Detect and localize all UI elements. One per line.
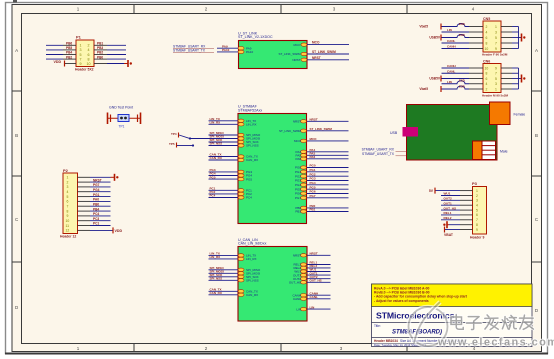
svg-text:2: 2 <box>476 194 478 198</box>
svg-text:5: 5 <box>476 208 478 212</box>
svg-text:PB4: PB4 <box>66 51 72 55</box>
svg-text:1: 1 <box>495 25 497 29</box>
P3 wires <box>436 191 461 230</box>
P3 net labels <box>444 192 457 220</box>
svg-text:ESD: ESD <box>459 33 465 37</box>
test point TP1 body <box>118 115 129 122</box>
svg-text:PB1: PB1 <box>295 210 301 214</box>
svg-text:www.elecfans.com: www.elecfans.com <box>437 337 554 349</box>
connector P3 body <box>473 187 487 235</box>
svg-text:PG7: PG7 <box>295 196 301 200</box>
svg-text:PB4: PB4 <box>93 207 99 211</box>
svg-text:STM8AF_USART_TX: STM8AF_USART_TX <box>362 152 395 156</box>
svg-text:7: 7 <box>476 218 478 222</box>
ground at P1 pin10 <box>124 63 128 65</box>
svg-text:PB1: PB1 <box>310 208 316 212</box>
test point left terminal <box>107 113 109 125</box>
svg-text:SPI_NSS: SPI_NSS <box>210 142 223 146</box>
svg-text:STM8AF_USART_TX: STM8AF_USART_TX <box>173 49 206 53</box>
svg-text:ESD: ESD <box>459 22 465 26</box>
svg-text:1: 1 <box>495 87 497 91</box>
P1 left pin stubs <box>63 45 76 63</box>
svg-text:Title:: Title: <box>374 324 381 328</box>
svg-text:OUT_HS: OUT_HS <box>310 279 322 283</box>
svg-text:4: 4 <box>88 48 90 52</box>
connector CN6 body <box>483 64 501 93</box>
U_CAN_LIN left pins <box>209 252 257 258</box>
P1 pin numbers <box>80 44 91 66</box>
U_ST_LINK body <box>239 41 308 69</box>
svg-text:PG7: PG7 <box>310 194 316 198</box>
svg-text:Vbat5: Vbat5 <box>419 87 428 91</box>
CN6 right pin stubs <box>501 68 512 89</box>
svg-text:SPI_NSS: SPI_NSS <box>210 277 223 281</box>
svg-text:PB0: PB0 <box>97 55 103 59</box>
svg-text:2: 2 <box>67 180 69 184</box>
svg-text:CANL: CANL <box>447 39 455 43</box>
svg-text:PB1: PB1 <box>97 42 103 46</box>
svg-text:12: 12 <box>66 229 70 233</box>
svg-text:5: 5 <box>67 195 69 199</box>
svg-text:7: 7 <box>495 72 497 76</box>
board pictogram male connector <box>473 141 483 160</box>
P2 pin stubs <box>78 177 91 230</box>
svg-text:5V: 5V <box>429 189 434 193</box>
svg-text:ESD: ESD <box>459 78 465 82</box>
svg-text:NRST: NRST <box>93 178 102 182</box>
svg-text:PB6: PB6 <box>66 42 72 46</box>
svg-text:TP4: TP4 <box>171 132 177 136</box>
CN5 right wires to ground bus <box>512 27 521 49</box>
test point TP1 wire <box>107 117 141 119</box>
svg-text:VBAT: VBAT <box>444 233 454 237</box>
svg-text:9: 9 <box>67 214 69 218</box>
svg-text:NRST: NRST <box>292 58 300 62</box>
svg-text:3: 3 <box>476 199 478 203</box>
U_CAN_LIN right pins <box>293 252 331 258</box>
U_CAN_LIN body <box>238 247 307 322</box>
svg-text:10: 10 <box>485 66 489 70</box>
P2 pin numbers <box>66 176 70 233</box>
svg-text:WU1: WU1 <box>444 192 451 196</box>
title block divider 2 <box>372 337 533 339</box>
svg-text:USB: USB <box>390 131 398 135</box>
svg-text:OUT2: OUT2 <box>444 197 453 201</box>
P3 pin stubs <box>460 191 473 230</box>
svg-text:TP5: TP5 <box>169 142 175 146</box>
board pictogram body <box>407 105 498 161</box>
ground at P3 pin8 <box>447 224 449 226</box>
U_STM8AF left pins <box>209 117 257 123</box>
svg-text:MCO: MCO <box>312 41 320 45</box>
svg-text:MCO: MCO <box>310 137 318 141</box>
svg-text:A: A <box>535 48 538 53</box>
svg-text:9: 9 <box>476 228 478 232</box>
wire MCO <box>307 44 349 46</box>
test point right terminal <box>140 113 142 125</box>
U_STM8AF body <box>238 114 307 224</box>
zone tick top 3/4 <box>406 5 408 14</box>
svg-text:LIN_RX: LIN_RX <box>246 257 257 261</box>
ground at P2 pin1 <box>111 176 115 178</box>
svg-text:LIN: LIN <box>310 305 315 309</box>
U_STM8AF right pins <box>293 118 349 124</box>
svg-text:STM8AF_USART_RX: STM8AF_USART_RX <box>362 148 395 152</box>
svg-text:Header 9: Header 9 <box>470 236 484 240</box>
svg-text:STM8AF52Axx: STM8AF52Axx <box>238 108 262 112</box>
title block outer <box>372 284 533 347</box>
svg-text:PA10: PA10 <box>246 50 253 54</box>
svg-text:8: 8 <box>67 209 69 213</box>
svg-text:4: 4 <box>67 190 69 194</box>
svg-text:4: 4 <box>486 82 488 86</box>
svg-text:PG4: PG4 <box>310 181 316 185</box>
svg-text:P3: P3 <box>472 181 478 186</box>
svg-text:5: 5 <box>495 77 497 81</box>
svg-text:ST_LINK_V2-1XDOC: ST_LINK_V2-1XDOC <box>238 35 273 39</box>
zone tick right <box>532 90 542 92</box>
svg-text:10: 10 <box>87 62 91 66</box>
P1 left wires <box>46 45 63 59</box>
svg-text:GND Test Point: GND Test Point <box>109 106 133 110</box>
svg-text:Header 5X2: Header 5X2 <box>75 68 94 72</box>
board pictogram USB plug <box>403 127 419 137</box>
title block divider 1 <box>372 322 533 324</box>
svg-text:CAN_LIN_9d/Dxx: CAN_LIN_9d/Dxx <box>238 242 267 246</box>
P2 wires <box>90 177 113 230</box>
CN6 right wires to ground bus <box>512 68 521 89</box>
svg-text:USB5V: USB5V <box>429 77 441 81</box>
title block notes box <box>372 284 533 307</box>
connector P1 body <box>76 40 94 67</box>
zone letters left <box>15 48 19 310</box>
power VDD at P2 pin12 <box>112 227 114 233</box>
svg-text:8: 8 <box>486 72 488 76</box>
CN5 left wires <box>442 24 470 49</box>
svg-text:- Adjust for values of compone: - Adjust for values of components <box>374 299 429 303</box>
svg-text:ST_LINK_SWIM: ST_LINK_SWIM <box>278 52 301 56</box>
svg-text:USB5V: USB5V <box>429 36 441 40</box>
svg-text:LIN_RX: LIN_RX <box>210 255 221 259</box>
corner mark top-left <box>13 0 17 3</box>
ground CN5 <box>521 34 523 42</box>
svg-text:B: B <box>535 133 538 138</box>
svg-text:CN5: CN5 <box>483 17 490 21</box>
svg-text:TP1: TP1 <box>119 125 125 129</box>
ground CN6 <box>521 75 523 83</box>
svg-text:1: 1 <box>67 176 69 180</box>
svg-text:6: 6 <box>486 77 488 81</box>
svg-text:CAN_RX: CAN_RX <box>246 293 258 297</box>
svg-text:3: 3 <box>495 30 497 34</box>
svg-text:8: 8 <box>486 41 488 45</box>
svg-text:PC4: PC4 <box>210 194 216 198</box>
zone numbers bottom <box>77 346 476 351</box>
svg-text:LIN_RX: LIN_RX <box>210 121 221 125</box>
svg-text:OUT_HS: OUT_HS <box>289 281 301 285</box>
svg-text:MCO: MCO <box>294 139 302 143</box>
svg-text:PC1: PC1 <box>93 222 99 226</box>
svg-text:PA6: PA6 <box>310 155 316 159</box>
svg-text:Header 12: Header 12 <box>60 235 76 239</box>
svg-text:PA6: PA6 <box>296 157 302 161</box>
svg-text:PB5: PB5 <box>66 46 72 50</box>
svg-text:5: 5 <box>80 53 82 57</box>
svg-text:LIN: LIN <box>296 307 301 311</box>
svg-text:REL2: REL2 <box>444 216 452 220</box>
svg-text:9: 9 <box>495 47 497 51</box>
svg-text:NRST: NRST <box>293 254 301 258</box>
svg-text:VDD: VDD <box>115 229 123 233</box>
svg-text:6: 6 <box>67 200 69 204</box>
svg-text:PG5: PG5 <box>246 177 252 181</box>
zone tick left <box>12 90 22 92</box>
svg-text:Header F 90 5x2M: Header F 90 5x2M <box>482 53 508 57</box>
watermark url <box>437 337 554 349</box>
board pictogram female connector <box>490 102 511 125</box>
svg-text:2: 2 <box>486 87 488 91</box>
svg-text:10: 10 <box>485 47 489 51</box>
svg-text:LIN_RX: LIN_RX <box>246 123 257 127</box>
svg-text:9: 9 <box>80 62 82 66</box>
svg-text:P2: P2 <box>63 168 69 173</box>
svg-text:PG4: PG4 <box>93 188 100 192</box>
svg-text:REL1: REL1 <box>444 211 452 215</box>
svg-text:6: 6 <box>476 213 478 217</box>
svg-text:3: 3 <box>67 185 69 189</box>
P1 right pin stubs <box>94 45 107 63</box>
svg-text:NRST: NRST <box>310 252 318 256</box>
svg-text:VDD: VDD <box>54 60 62 64</box>
svg-text:PG1: PG1 <box>93 193 100 197</box>
svg-text:CAN_RX: CAN_RX <box>246 158 258 162</box>
svg-text:6: 6 <box>88 53 90 57</box>
CN6 left wires <box>442 68 470 89</box>
svg-text:PC3: PC3 <box>93 217 99 221</box>
svg-text:SPI_NSS: SPI_NSS <box>246 144 259 148</box>
svg-text:NRST: NRST <box>310 118 318 122</box>
P3 pin numbers <box>476 189 478 232</box>
svg-text:CANL: CANL <box>293 297 301 301</box>
svg-text:Female: Female <box>514 113 526 117</box>
P1 left net labels <box>66 42 72 60</box>
svg-text:4: 4 <box>486 30 488 34</box>
svg-text:NRST: NRST <box>312 56 321 60</box>
bottom heavy border <box>5 353 548 355</box>
svg-text:PG5: PG5 <box>210 175 216 179</box>
P2 net labels <box>93 178 102 225</box>
svg-text:ESD: ESD <box>459 84 465 88</box>
svg-text:6: 6 <box>486 36 488 40</box>
svg-text:7: 7 <box>80 57 82 61</box>
svg-text:Header M 90 5x2M: Header M 90 5x2M <box>482 94 509 98</box>
zone numbers top <box>77 7 475 12</box>
svg-text:B: B <box>15 133 18 138</box>
svg-text:CANH: CANH <box>447 45 456 49</box>
CN6 left pin stubs <box>469 68 483 89</box>
svg-text:CAN_RX: CAN_RX <box>210 291 222 295</box>
wires into ST_LINK left <box>217 47 238 49</box>
power VBAT at P3 pin9 <box>444 227 446 233</box>
U_ST_LINK left pins <box>238 47 244 50</box>
svg-text:ST_LINK_SWIM: ST_LINK_SWIM <box>310 127 333 131</box>
svg-text:CANH: CANH <box>447 64 456 68</box>
svg-text:SPI_NSS: SPI_NSS <box>246 279 259 283</box>
CN5 right pin stubs <box>501 27 512 49</box>
svg-text:PB2: PB2 <box>66 55 72 59</box>
CN5 left pin stubs <box>469 27 483 49</box>
P1 right net labels <box>97 42 103 60</box>
svg-text:PG1: PG1 <box>295 170 301 174</box>
svg-text:8: 8 <box>88 57 90 61</box>
svg-text:11: 11 <box>66 224 70 228</box>
svg-text:NRST: NRST <box>293 120 301 124</box>
svg-text:5: 5 <box>495 36 497 40</box>
svg-text:CAN_RX: CAN_RX <box>210 156 222 160</box>
svg-text:PG4: PG4 <box>295 183 301 187</box>
svg-text:CN6: CN6 <box>483 59 490 63</box>
svg-text:9: 9 <box>495 66 497 70</box>
connector P2 body <box>63 173 78 234</box>
svg-text:Vbat5: Vbat5 <box>419 25 428 29</box>
svg-text:8: 8 <box>476 223 478 227</box>
svg-text:PB3: PB3 <box>97 46 103 50</box>
svg-text:PB0: PB0 <box>93 202 99 206</box>
svg-text:LIN: LIN <box>447 28 452 32</box>
svg-text:PA6: PA6 <box>93 198 99 202</box>
svg-text:PG7: PG7 <box>93 183 100 187</box>
svg-text:2: 2 <box>88 44 90 48</box>
svg-text:PB2: PB2 <box>97 51 103 55</box>
svg-text:7: 7 <box>67 205 69 209</box>
svg-text:7: 7 <box>495 41 497 45</box>
watermark logo circle <box>409 302 448 346</box>
watermark characters (vector strokes) <box>451 315 533 330</box>
svg-text:LIN: LIN <box>447 80 452 84</box>
zone tick bottom <box>133 344 135 352</box>
zone tick top 1/2 <box>133 5 135 14</box>
svg-text:CANL: CANL <box>310 295 318 299</box>
wire NRST <box>307 59 349 61</box>
svg-text:PC4: PC4 <box>246 196 252 200</box>
zone letters right <box>535 48 539 313</box>
U_ST_LINK right pins <box>301 43 307 46</box>
wire ST_LINK_SWIM <box>307 53 349 55</box>
svg-text:PC4: PC4 <box>93 212 99 216</box>
connector CN5 body <box>483 21 501 52</box>
svg-text:10: 10 <box>66 219 70 223</box>
svg-text:PG1: PG1 <box>310 168 316 172</box>
svg-text:P1: P1 <box>76 35 82 40</box>
svg-text:OUT_HS: OUT_HS <box>444 206 457 210</box>
svg-text:A: A <box>15 48 18 53</box>
svg-text:1: 1 <box>476 189 478 193</box>
svg-text:CANL: CANL <box>447 69 455 73</box>
svg-text:OUT1: OUT1 <box>444 201 453 205</box>
zone tick top 2/3 <box>280 5 282 14</box>
svg-text:2: 2 <box>486 25 488 29</box>
svg-text:4: 4 <box>476 204 478 208</box>
svg-text:1: 1 <box>80 44 82 48</box>
svg-text:3: 3 <box>80 48 82 52</box>
svg-text:PA10: PA10 <box>222 48 230 52</box>
P1 right wires <box>107 45 127 63</box>
svg-text:ST_LINK_SWIM: ST_LINK_SWIM <box>279 129 302 133</box>
svg-text:3: 3 <box>495 82 497 86</box>
svg-text:Male: Male <box>500 150 508 154</box>
svg-text:ST_LINK_SWIM: ST_LINK_SWIM <box>312 50 336 54</box>
svg-text:MCO: MCO <box>294 43 302 47</box>
